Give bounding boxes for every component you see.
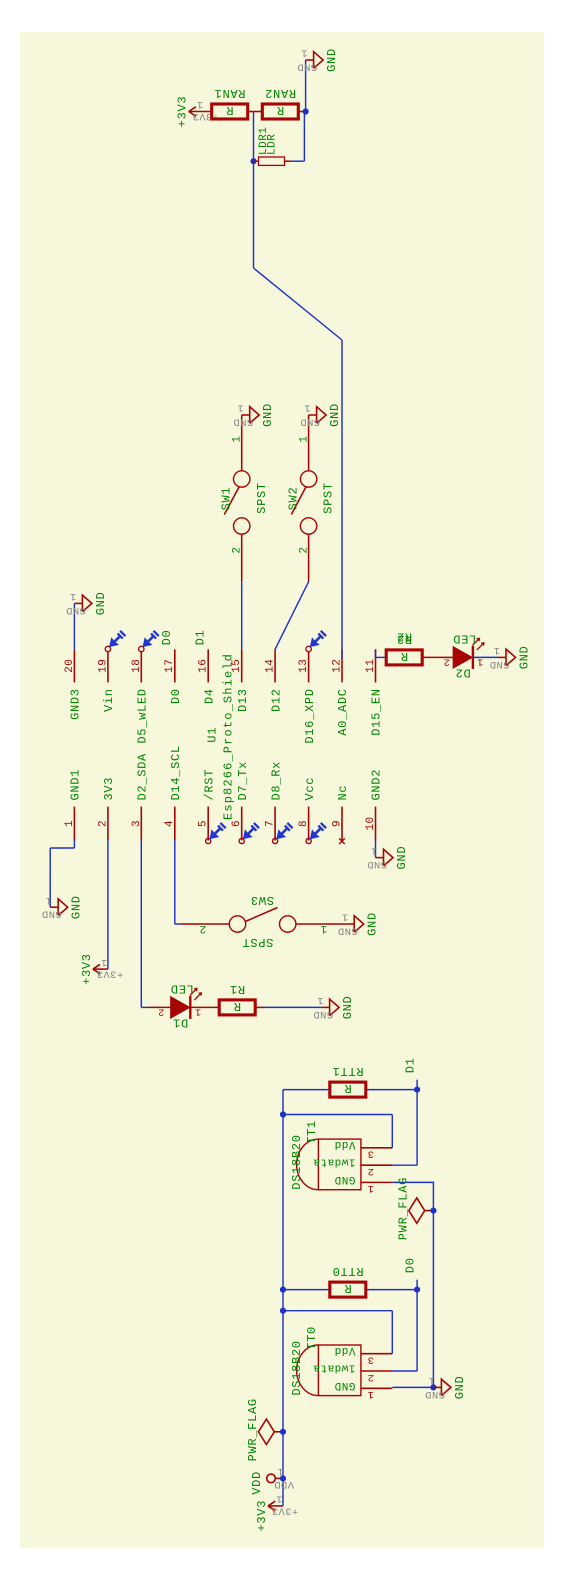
- svg-text:PWR_FLAG: PWR_FLAG: [397, 1177, 411, 1240]
- svg-text:GND: GND: [66, 604, 86, 616]
- svg-text:/RST: /RST: [202, 769, 216, 801]
- svg-text:14: 14: [265, 659, 277, 673]
- svg-text:RTT1: RTT1: [332, 1064, 364, 1078]
- svg-text:A0_ADC: A0_ADC: [336, 688, 350, 735]
- svg-text:D16_XPD: D16_XPD: [303, 688, 317, 743]
- svg-text:3: 3: [367, 1354, 374, 1366]
- svg-text:+3V3: +3V3: [80, 953, 94, 985]
- svg-text:19: 19: [97, 659, 109, 673]
- svg-text:R: R: [276, 103, 284, 117]
- svg-text:GND: GND: [425, 1388, 445, 1400]
- svg-text:1: 1: [299, 435, 311, 442]
- svg-text:DS18B20: DS18B20: [290, 1340, 304, 1395]
- svg-text:GND: GND: [328, 403, 342, 427]
- svg-text:PWR_FLAG: PWR_FLAG: [246, 1398, 260, 1461]
- svg-text:1: 1: [276, 1493, 283, 1505]
- svg-text:LDR: LDR: [266, 134, 278, 155]
- svg-text:D0: D0: [160, 630, 174, 646]
- svg-text:GND1: GND1: [69, 769, 83, 801]
- svg-text:GND: GND: [367, 858, 387, 870]
- svg-text:D12: D12: [269, 688, 283, 712]
- svg-text:2: 2: [232, 546, 244, 553]
- svg-text:SPST: SPST: [242, 935, 274, 949]
- svg-text:GND: GND: [297, 60, 317, 72]
- svg-text:D2_SDA: D2_SDA: [136, 753, 150, 801]
- svg-text:U1: U1: [206, 727, 220, 743]
- svg-text:D14_SCL: D14_SCL: [169, 745, 183, 800]
- svg-text:1: 1: [341, 911, 348, 923]
- svg-text:GND: GND: [334, 1173, 355, 1185]
- svg-text:12: 12: [332, 659, 344, 673]
- svg-text:1: 1: [232, 435, 244, 442]
- svg-text:GND: GND: [518, 646, 532, 670]
- svg-text:6: 6: [231, 820, 243, 827]
- svg-text:1: 1: [101, 956, 108, 968]
- svg-text:20: 20: [64, 659, 76, 673]
- svg-text:GND2: GND2: [370, 769, 384, 801]
- svg-text:1: 1: [320, 922, 327, 934]
- svg-text:D13: D13: [236, 688, 250, 712]
- svg-text:1: 1: [277, 1465, 284, 1477]
- svg-text:TT0: TT0: [305, 1326, 319, 1350]
- svg-text:D0: D0: [403, 1257, 417, 1273]
- svg-text:GND: GND: [325, 48, 339, 72]
- svg-text:1: 1: [70, 590, 77, 602]
- svg-text:D15_EN: D15_EN: [370, 688, 384, 735]
- svg-text:VDD: VDD: [250, 1471, 264, 1495]
- svg-text:1: 1: [301, 47, 308, 59]
- svg-text:Vin: Vin: [102, 688, 116, 712]
- svg-text:16: 16: [198, 659, 210, 673]
- svg-text:RAN2: RAN2: [264, 86, 296, 100]
- svg-text:R2: R2: [396, 630, 412, 644]
- svg-text:R: R: [344, 1081, 352, 1095]
- svg-text:2: 2: [97, 820, 109, 827]
- svg-text:R: R: [344, 1281, 352, 1295]
- svg-text:GND: GND: [334, 1379, 355, 1391]
- svg-text:18: 18: [131, 659, 143, 673]
- svg-text:LED: LED: [170, 982, 194, 996]
- svg-text:1: 1: [317, 994, 324, 1006]
- svg-text:3V3: 3V3: [102, 777, 116, 801]
- svg-text:R: R: [233, 999, 241, 1013]
- svg-text:+3V3: +3V3: [271, 1505, 298, 1517]
- svg-text:GND: GND: [453, 1376, 467, 1400]
- svg-text:Vdd: Vdd: [334, 1138, 355, 1150]
- svg-text:RAN1: RAN1: [214, 86, 246, 100]
- svg-text:11: 11: [365, 659, 377, 673]
- svg-text:9: 9: [332, 820, 344, 827]
- svg-text:5: 5: [198, 820, 210, 827]
- svg-text:Vdd: Vdd: [334, 1344, 355, 1356]
- svg-text:1: 1: [367, 1182, 374, 1194]
- svg-text:D1: D1: [403, 1057, 417, 1073]
- svg-text:2: 2: [367, 1165, 374, 1177]
- svg-text:1wdata: 1wdata: [313, 1156, 356, 1168]
- svg-text:+3V3: +3V3: [255, 1500, 269, 1532]
- svg-text:4: 4: [164, 820, 176, 827]
- svg-text:R: R: [226, 103, 234, 117]
- svg-text:GND: GND: [338, 924, 358, 936]
- svg-text:GND: GND: [395, 846, 409, 870]
- svg-text:SW2: SW2: [287, 487, 301, 511]
- svg-text:1: 1: [493, 644, 500, 656]
- svg-text:SPST: SPST: [255, 482, 269, 514]
- svg-text:17: 17: [164, 659, 176, 673]
- svg-text:3: 3: [131, 820, 143, 827]
- svg-text:D2: D2: [455, 666, 471, 680]
- svg-text:GND: GND: [313, 1008, 333, 1020]
- svg-text:1: 1: [367, 1388, 374, 1400]
- svg-text:1: 1: [429, 1374, 436, 1386]
- svg-text:GND: GND: [341, 996, 355, 1020]
- svg-text:D7_Tx: D7_Tx: [236, 761, 250, 801]
- svg-text:2: 2: [158, 1006, 164, 1017]
- svg-text:TT1: TT1: [305, 1120, 319, 1144]
- svg-text:3: 3: [367, 1148, 374, 1160]
- svg-text:13: 13: [298, 659, 310, 673]
- svg-text:+3V3: +3V3: [176, 96, 190, 128]
- svg-text:1wdata: 1wdata: [313, 1361, 356, 1373]
- svg-text:GND: GND: [489, 658, 509, 670]
- svg-text:D1: D1: [172, 1016, 188, 1030]
- svg-text:1: 1: [64, 820, 76, 827]
- svg-text:1: 1: [196, 98, 203, 110]
- svg-text:10: 10: [365, 816, 377, 830]
- svg-text:1: 1: [45, 894, 52, 906]
- svg-text:GND: GND: [42, 908, 62, 920]
- svg-text:DS18B20: DS18B20: [290, 1134, 304, 1189]
- svg-text:2: 2: [299, 546, 311, 553]
- svg-text:Vcc: Vcc: [303, 777, 317, 801]
- svg-text:GND3: GND3: [69, 688, 83, 720]
- svg-text:GND: GND: [70, 895, 84, 919]
- svg-text:LED: LED: [453, 632, 477, 646]
- svg-text:+3V3: +3V3: [96, 968, 123, 980]
- svg-text:1: 1: [371, 844, 378, 856]
- svg-text:1: 1: [304, 402, 311, 414]
- svg-text:SW1: SW1: [220, 487, 234, 511]
- svg-text:GND: GND: [261, 403, 275, 427]
- svg-text:RTT0: RTT0: [332, 1264, 364, 1278]
- svg-text:GND: GND: [233, 415, 253, 427]
- svg-text:D0: D0: [169, 688, 183, 704]
- svg-text:7: 7: [265, 820, 277, 827]
- svg-text:Esp8266_Proto_Shield: Esp8266_Proto_Shield: [222, 653, 236, 820]
- svg-text:D8_Rx: D8_Rx: [269, 761, 283, 801]
- svg-text:D5_wLED: D5_wLED: [136, 688, 150, 743]
- svg-text:GND: GND: [300, 415, 320, 427]
- svg-text:8: 8: [298, 820, 310, 827]
- svg-text:D1: D1: [193, 630, 207, 646]
- svg-text:GND: GND: [94, 592, 108, 616]
- svg-text:R: R: [400, 649, 408, 663]
- svg-text:SW3: SW3: [250, 893, 274, 907]
- svg-text:2: 2: [367, 1371, 374, 1383]
- svg-text:SPST: SPST: [322, 482, 336, 514]
- svg-text:D4: D4: [202, 688, 216, 704]
- svg-text:1: 1: [237, 402, 244, 414]
- svg-text:Nc: Nc: [336, 785, 350, 801]
- svg-text:R1: R1: [229, 982, 245, 996]
- svg-text:2: 2: [199, 922, 206, 934]
- svg-text:GND: GND: [366, 912, 380, 936]
